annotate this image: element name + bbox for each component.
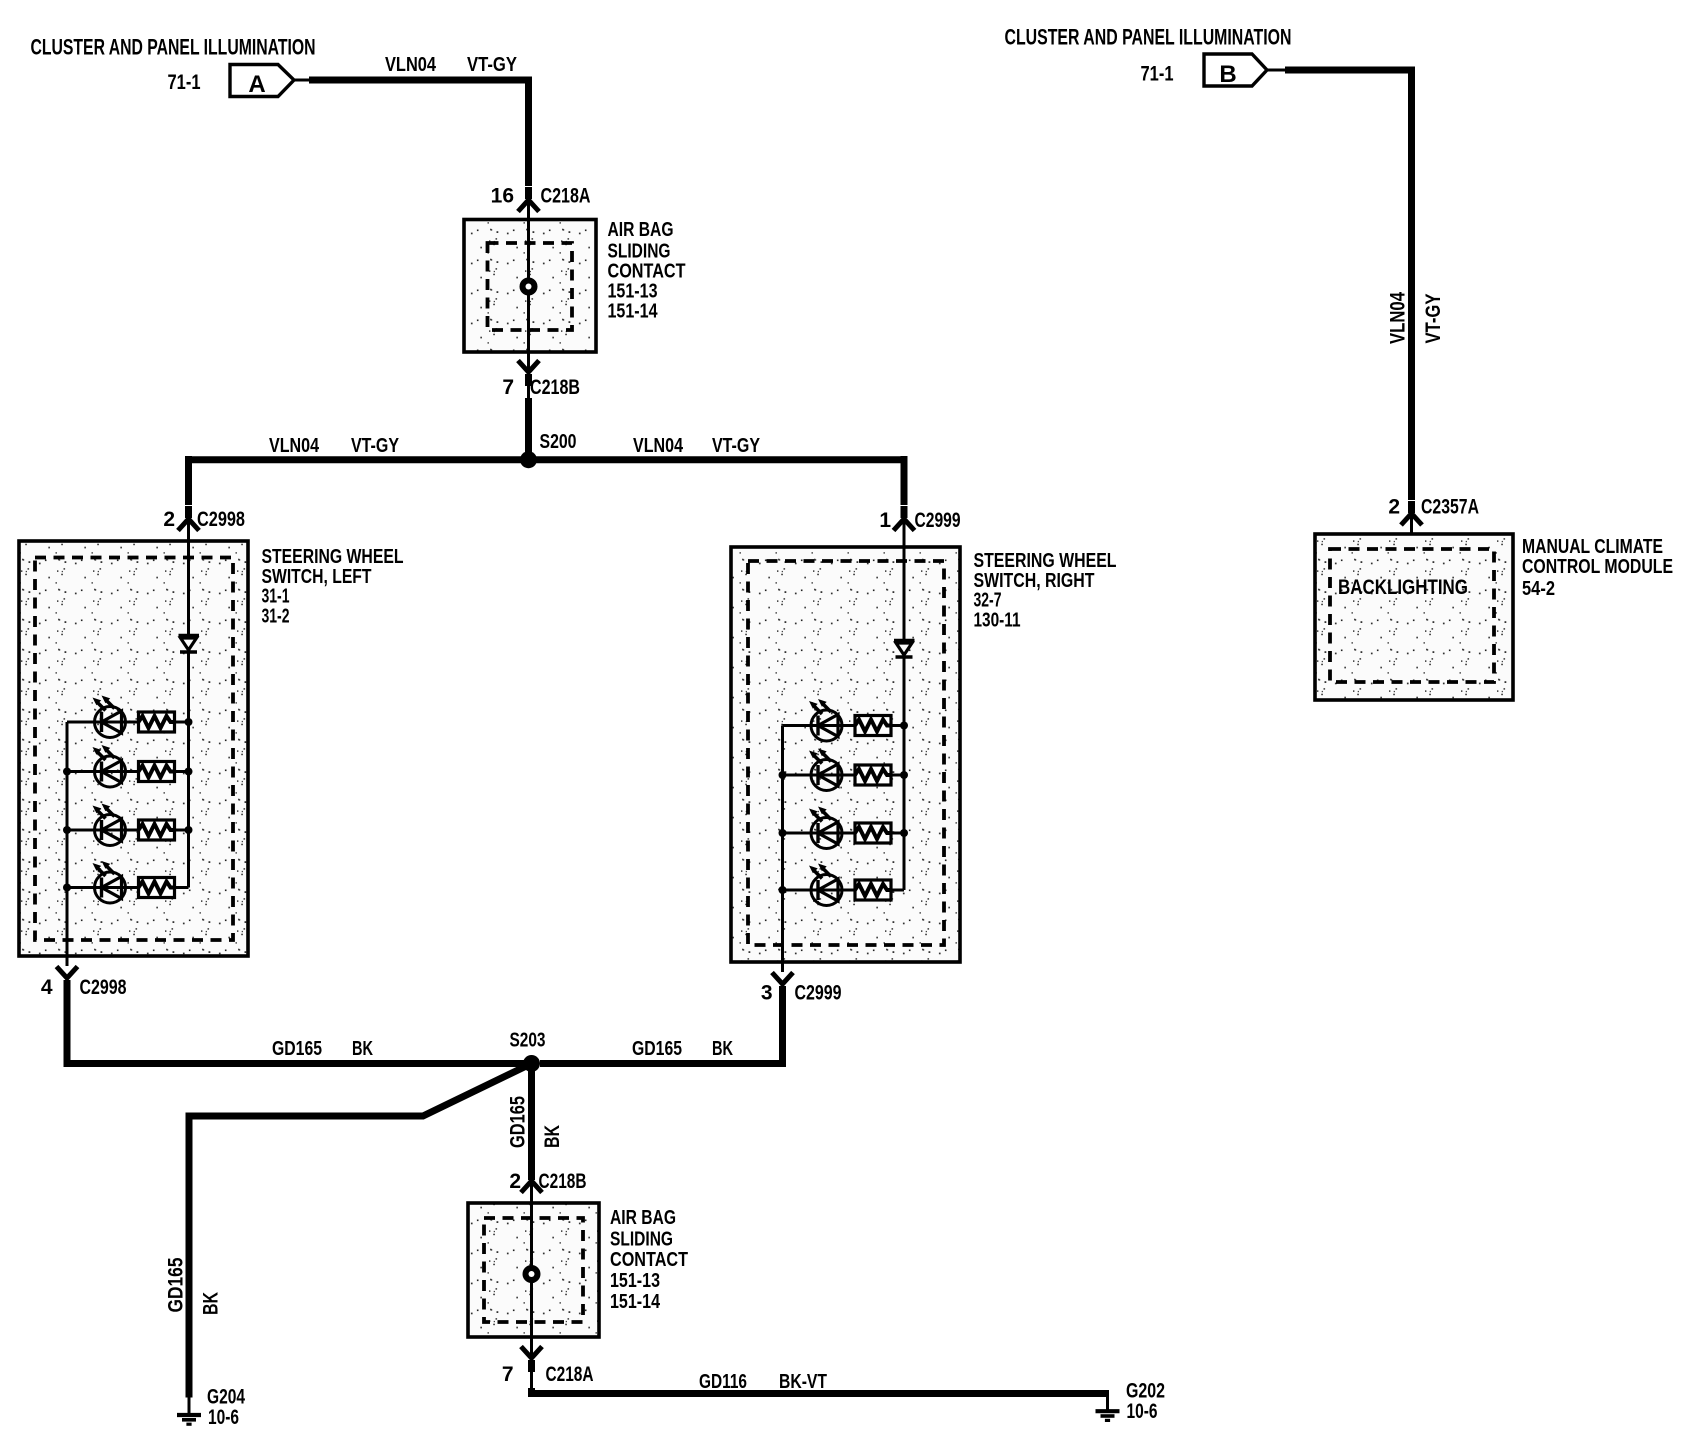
svg-text:VT-GY: VT-GY: [1422, 294, 1445, 344]
svg-text:S200: S200: [540, 431, 577, 453]
svg-text:AIR BAG: AIR BAG: [610, 1207, 676, 1229]
svg-text:10-6: 10-6: [1127, 1400, 1158, 1423]
svg-text:C218B: C218B: [530, 376, 580, 399]
svg-text:151-14: 151-14: [608, 301, 659, 323]
svg-text:GD165: GD165: [165, 1257, 188, 1312]
svg-text:151-14: 151-14: [610, 1291, 661, 1313]
svg-text:2: 2: [163, 508, 175, 531]
svg-text:STEERING WHEEL: STEERING WHEEL: [974, 550, 1117, 572]
svg-text:BK: BK: [541, 1125, 564, 1148]
svg-text:71-1: 71-1: [1141, 63, 1174, 86]
svg-text:VLN04: VLN04: [269, 435, 320, 457]
svg-text:7: 7: [502, 376, 514, 399]
svg-text:VLN04: VLN04: [1387, 292, 1410, 344]
svg-text:10-6: 10-6: [208, 1406, 239, 1429]
svg-text:C218A: C218A: [546, 1363, 594, 1386]
svg-text:B: B: [1219, 61, 1236, 88]
svg-text:GD165: GD165: [632, 1038, 682, 1060]
svg-text:AIR BAG: AIR BAG: [608, 219, 674, 241]
svg-text:CLUSTER AND PANEL ILLUMINATION: CLUSTER AND PANEL ILLUMINATION: [31, 35, 316, 60]
svg-text:CONTACT: CONTACT: [610, 1249, 688, 1271]
svg-text:71-1: 71-1: [168, 71, 201, 94]
svg-text:SLIDING: SLIDING: [610, 1229, 673, 1251]
svg-text:C2357A: C2357A: [1421, 496, 1479, 519]
svg-text:16: 16: [491, 185, 514, 208]
svg-text:BK: BK: [352, 1038, 373, 1060]
svg-text:VLN04: VLN04: [385, 54, 437, 76]
svg-text:C2999: C2999: [915, 509, 961, 532]
svg-text:MANUAL CLIMATE: MANUAL CLIMATE: [1522, 536, 1663, 558]
svg-text:31-1: 31-1: [262, 586, 290, 608]
svg-text:C2998: C2998: [197, 508, 245, 531]
svg-text:VT-GY: VT-GY: [712, 435, 761, 457]
svg-text:54-2: 54-2: [1522, 578, 1555, 600]
svg-text:GD165: GD165: [507, 1096, 530, 1148]
svg-text:151-13: 151-13: [610, 1270, 660, 1292]
svg-text:C2999: C2999: [795, 982, 842, 1005]
svg-text:CONTROL MODULE: CONTROL MODULE: [1522, 556, 1673, 578]
svg-text:A: A: [248, 71, 265, 98]
svg-text:4: 4: [41, 976, 53, 999]
svg-text:BACKLIGHTING: BACKLIGHTING: [1338, 576, 1468, 599]
svg-text:VT-GY: VT-GY: [467, 54, 518, 76]
svg-text:C218A: C218A: [541, 185, 591, 208]
svg-text:BK: BK: [712, 1038, 733, 1060]
svg-text:BK-VT: BK-VT: [779, 1371, 827, 1393]
svg-text:2: 2: [1388, 496, 1400, 519]
svg-text:151-13: 151-13: [608, 281, 658, 303]
svg-text:2: 2: [509, 1170, 521, 1193]
svg-text:BK: BK: [200, 1292, 223, 1315]
svg-text:1: 1: [879, 509, 891, 532]
svg-text:C2998: C2998: [80, 976, 127, 999]
svg-text:GD165: GD165: [272, 1038, 322, 1060]
svg-text:C218B: C218B: [539, 1170, 587, 1193]
svg-text:32-7: 32-7: [974, 590, 1002, 612]
svg-text:7: 7: [502, 1363, 514, 1386]
svg-text:3: 3: [761, 982, 773, 1005]
svg-text:CONTACT: CONTACT: [608, 261, 686, 283]
svg-text:S203: S203: [510, 1030, 546, 1052]
svg-text:VT-GY: VT-GY: [351, 435, 400, 457]
svg-text:130-11: 130-11: [974, 610, 1021, 632]
svg-text:STEERING WHEEL: STEERING WHEEL: [262, 546, 404, 568]
svg-text:GD116: GD116: [699, 1371, 747, 1393]
svg-text:SLIDING: SLIDING: [608, 241, 671, 263]
svg-text:31-2: 31-2: [262, 606, 290, 628]
svg-text:VLN04: VLN04: [633, 435, 684, 457]
svg-text:CLUSTER AND PANEL ILLUMINATION: CLUSTER AND PANEL ILLUMINATION: [1005, 25, 1292, 50]
